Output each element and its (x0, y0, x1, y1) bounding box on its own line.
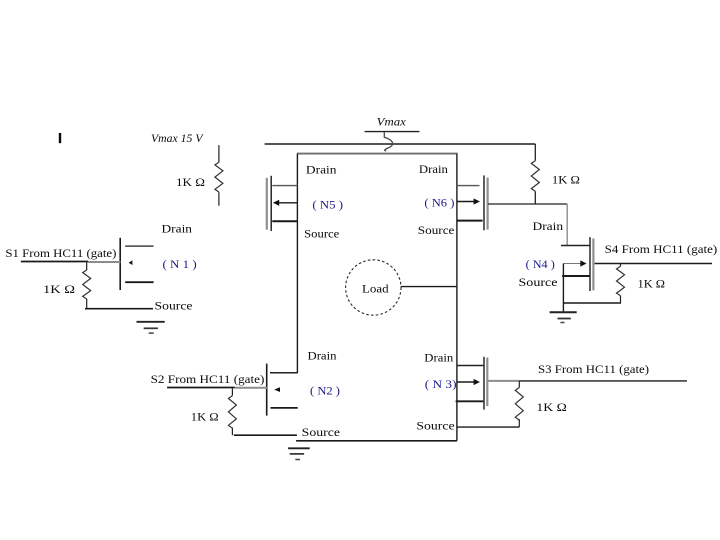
svg-text:1K Ω: 1K Ω (536, 400, 566, 414)
svg-text:( N5 ): ( N5 ) (312, 198, 343, 212)
svg-text:S1 From HC11 (gate): S1 From HC11 (gate) (5, 246, 116, 260)
svg-text:1K Ω: 1K Ω (176, 175, 205, 189)
svg-text:1K Ω: 1K Ω (552, 173, 580, 187)
svg-text:Vmax: Vmax (377, 114, 407, 128)
svg-text:Source: Source (155, 299, 193, 313)
svg-text:( N2 ): ( N2 ) (310, 384, 340, 398)
svg-text:Source: Source (302, 425, 340, 439)
svg-text:( N 1 ): ( N 1 ) (163, 257, 197, 271)
svg-text:Drain: Drain (306, 163, 337, 177)
svg-text:S4 From HC11 (gate): S4 From HC11 (gate) (605, 242, 718, 256)
svg-text:Drain: Drain (308, 349, 337, 363)
svg-text:1K Ω: 1K Ω (638, 276, 666, 290)
svg-text:( N6 ): ( N6 ) (424, 196, 454, 210)
svg-text:1K Ω: 1K Ω (43, 282, 75, 296)
svg-text:Source: Source (304, 227, 339, 241)
svg-text:Source: Source (416, 418, 454, 432)
svg-text:S2 From HC11 (gate): S2 From HC11 (gate) (151, 372, 265, 386)
svg-text:( N 3): ( N 3) (425, 377, 457, 391)
svg-text:Drain: Drain (424, 350, 453, 364)
svg-text:S3 From HC11 (gate): S3 From HC11 (gate) (538, 362, 649, 376)
svg-text:Drain: Drain (533, 219, 564, 233)
svg-text:( N4 ): ( N4 ) (526, 257, 555, 271)
svg-text:Load: Load (362, 282, 389, 296)
svg-text:Drain: Drain (419, 162, 448, 176)
svg-text:Source: Source (519, 275, 558, 289)
svg-text:1K Ω: 1K Ω (191, 409, 219, 423)
svg-text:Drain: Drain (162, 222, 193, 236)
svg-text:Vmax 15 V: Vmax 15 V (151, 131, 204, 145)
svg-text:Source: Source (418, 223, 455, 237)
